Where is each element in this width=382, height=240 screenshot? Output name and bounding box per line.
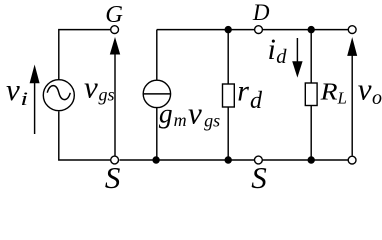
svg-text:G: G [105, 1, 123, 28]
svg-text:d: d [250, 88, 263, 114]
arrow v_o [347, 37, 357, 156]
terminal S right [255, 156, 263, 164]
svg-text:m: m [174, 110, 187, 130]
terminal output top [348, 26, 356, 34]
current source g_m v_gs [143, 30, 170, 160]
svg-text:o: o [372, 87, 382, 109]
AC source Vi [43, 80, 74, 111]
svg-text:S: S [105, 160, 121, 191]
arrow v_gs [110, 37, 120, 156]
wire top rail [157, 29, 348, 31]
junction dot source-branch bottom [152, 156, 159, 163]
junction dot R_L bottom [308, 156, 315, 163]
arrow i_d [292, 38, 302, 78]
svg-text:v: v [84, 69, 98, 104]
terminal D [255, 26, 263, 34]
junction dot r_d bottom [225, 156, 232, 163]
svg-text:R: R [320, 78, 338, 105]
resistor r_d [223, 30, 235, 160]
wire bottom rail [120, 159, 349, 161]
wire top-left from source to gate terminal [59, 30, 111, 80]
resistor R_L [305, 30, 317, 160]
svg-text:gs: gs [99, 85, 115, 105]
svg-text:gs: gs [204, 111, 220, 131]
terminal G [111, 26, 119, 34]
svg-text:g: g [159, 97, 173, 128]
svg-text:d: d [276, 46, 287, 68]
svg-text:v: v [188, 96, 202, 131]
wire source-branch bottom [59, 111, 112, 160]
arrow v_i [30, 65, 40, 135]
svg-text:i: i [268, 33, 276, 66]
svg-text:i: i [20, 89, 28, 110]
junction dot R_L top [308, 26, 315, 33]
svg-text:S: S [251, 160, 266, 191]
svg-text:v: v [358, 72, 372, 107]
svg-text:r: r [237, 74, 249, 107]
svg-text:L: L [337, 89, 347, 108]
svg-text:v: v [6, 72, 20, 107]
svg-text:D: D [252, 0, 270, 25]
junction dot r_d top [225, 26, 232, 33]
terminal S left [111, 156, 119, 164]
terminal output bottom [348, 156, 356, 164]
